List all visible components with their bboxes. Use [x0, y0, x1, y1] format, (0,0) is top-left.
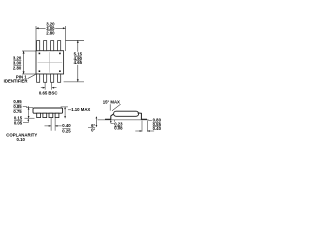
side view left lead	[105, 114, 113, 119]
svg-text:1.10 MAX: 1.10 MAX	[71, 107, 90, 112]
side view right lead	[138, 113, 148, 119]
svg-text:IDENTIFIER: IDENTIFIER	[4, 79, 29, 84]
svg-text:15° MAX: 15° MAX	[103, 99, 120, 104]
left dimension 3.20/3.00/2.80 (vertical, top view)	[22, 51, 36, 74]
0.95/0.85/0.75 dimension (front view left)	[23, 106, 35, 118]
svg-text:0.65 BSC: 0.65 BSC	[39, 90, 58, 95]
0.80/0.55/0.40 foot length dimension	[135, 120, 154, 131]
0.23/0.08 lead thickness dimension	[110, 120, 112, 123]
top dimension 3.20/3.00/2.80 (horizontal, top view)	[36, 26, 66, 51]
PIN 1 IDENTIFIER label + leader	[4, 75, 29, 84]
svg-text:2.80: 2.80	[46, 30, 55, 35]
right dimension 5.15/4.90/4.65	[64, 40, 84, 82]
package body (top view)	[36, 51, 64, 74]
center crosshair	[49, 52, 51, 72]
svg-text:0.05: 0.05	[14, 121, 23, 126]
top leads (pins 8-5)	[37, 41, 61, 51]
svg-text:0°: 0°	[91, 127, 95, 132]
corner dots	[39, 53, 41, 55]
front view body (bottom left)	[33, 108, 63, 113]
side view body	[114, 111, 139, 116]
bottom leads (pins 1-4)	[37, 74, 61, 82]
svg-text:0.10: 0.10	[17, 137, 26, 142]
6°/0° angle dimension	[95, 117, 97, 126]
front view lead feet	[37, 113, 59, 117]
0.40/0.25 lead width dimension	[45, 118, 62, 131]
COPLANARITY 0.10 label	[6, 132, 37, 142]
svg-text:0.75: 0.75	[13, 109, 22, 114]
0.65 BSC pitch dimension	[41, 83, 57, 90]
seating plane line	[98, 119, 149, 121]
0.15/0.05 standoff dimension	[14, 116, 23, 126]
1.10 MAX height dimension	[61, 107, 72, 118]
svg-text:2.80: 2.80	[13, 66, 22, 71]
svg-text:0.25: 0.25	[62, 128, 71, 133]
